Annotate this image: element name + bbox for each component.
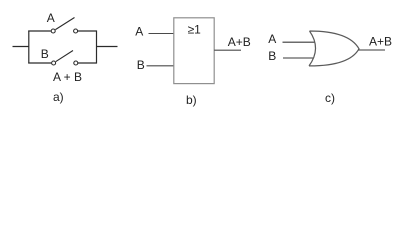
svg-text:A: A xyxy=(47,11,55,25)
wire: switch B to right bus xyxy=(78,62,97,64)
IEC OR-gate box U1 xyxy=(174,18,214,84)
wire: output lead right (a) xyxy=(97,46,118,48)
svg-text:A: A xyxy=(268,32,276,46)
switch B fixed contact (right circle) xyxy=(74,61,78,65)
switch A fixed contact (right circle) xyxy=(74,29,78,33)
wire: input B to OR gate xyxy=(283,57,314,59)
wire: input lead left (a) xyxy=(13,46,30,48)
wire: input B to IEC box xyxy=(147,65,175,67)
wire: output of IEC box xyxy=(214,49,241,51)
svg-text:A+B: A+B xyxy=(369,35,392,49)
svg-text:A + B: A + B xyxy=(53,70,82,84)
svg-text:A: A xyxy=(135,25,143,39)
svg-text:a): a) xyxy=(53,90,64,104)
wire: top branch to switch A xyxy=(28,30,51,32)
wire: right bus vertical (a) xyxy=(96,31,98,64)
svg-text:c): c) xyxy=(325,91,335,105)
wire: left bus vertical (a) xyxy=(28,31,30,64)
switch A pivot contact (left circle) xyxy=(51,29,55,33)
svg-text:b): b) xyxy=(186,93,197,107)
OR gate U2 (distinctive shape) xyxy=(309,31,359,66)
svg-text:B: B xyxy=(41,47,49,61)
svg-text:A+B: A+B xyxy=(228,35,251,49)
wire: input A to IEC box xyxy=(149,33,175,35)
svg-text:B: B xyxy=(137,58,145,72)
wire: input A to OR gate xyxy=(283,41,316,43)
switch B blade (open, diagonal) xyxy=(56,51,73,62)
wire: output of OR gate xyxy=(359,49,386,51)
switch A blade (open, diagonal) xyxy=(55,18,74,30)
switch B pivot contact (left circle) xyxy=(52,61,56,65)
wire: switch A to right bus xyxy=(78,30,97,32)
svg-text:B: B xyxy=(268,49,276,63)
wire: bottom branch to switch B xyxy=(28,62,51,64)
svg-text:≥1: ≥1 xyxy=(188,22,202,36)
